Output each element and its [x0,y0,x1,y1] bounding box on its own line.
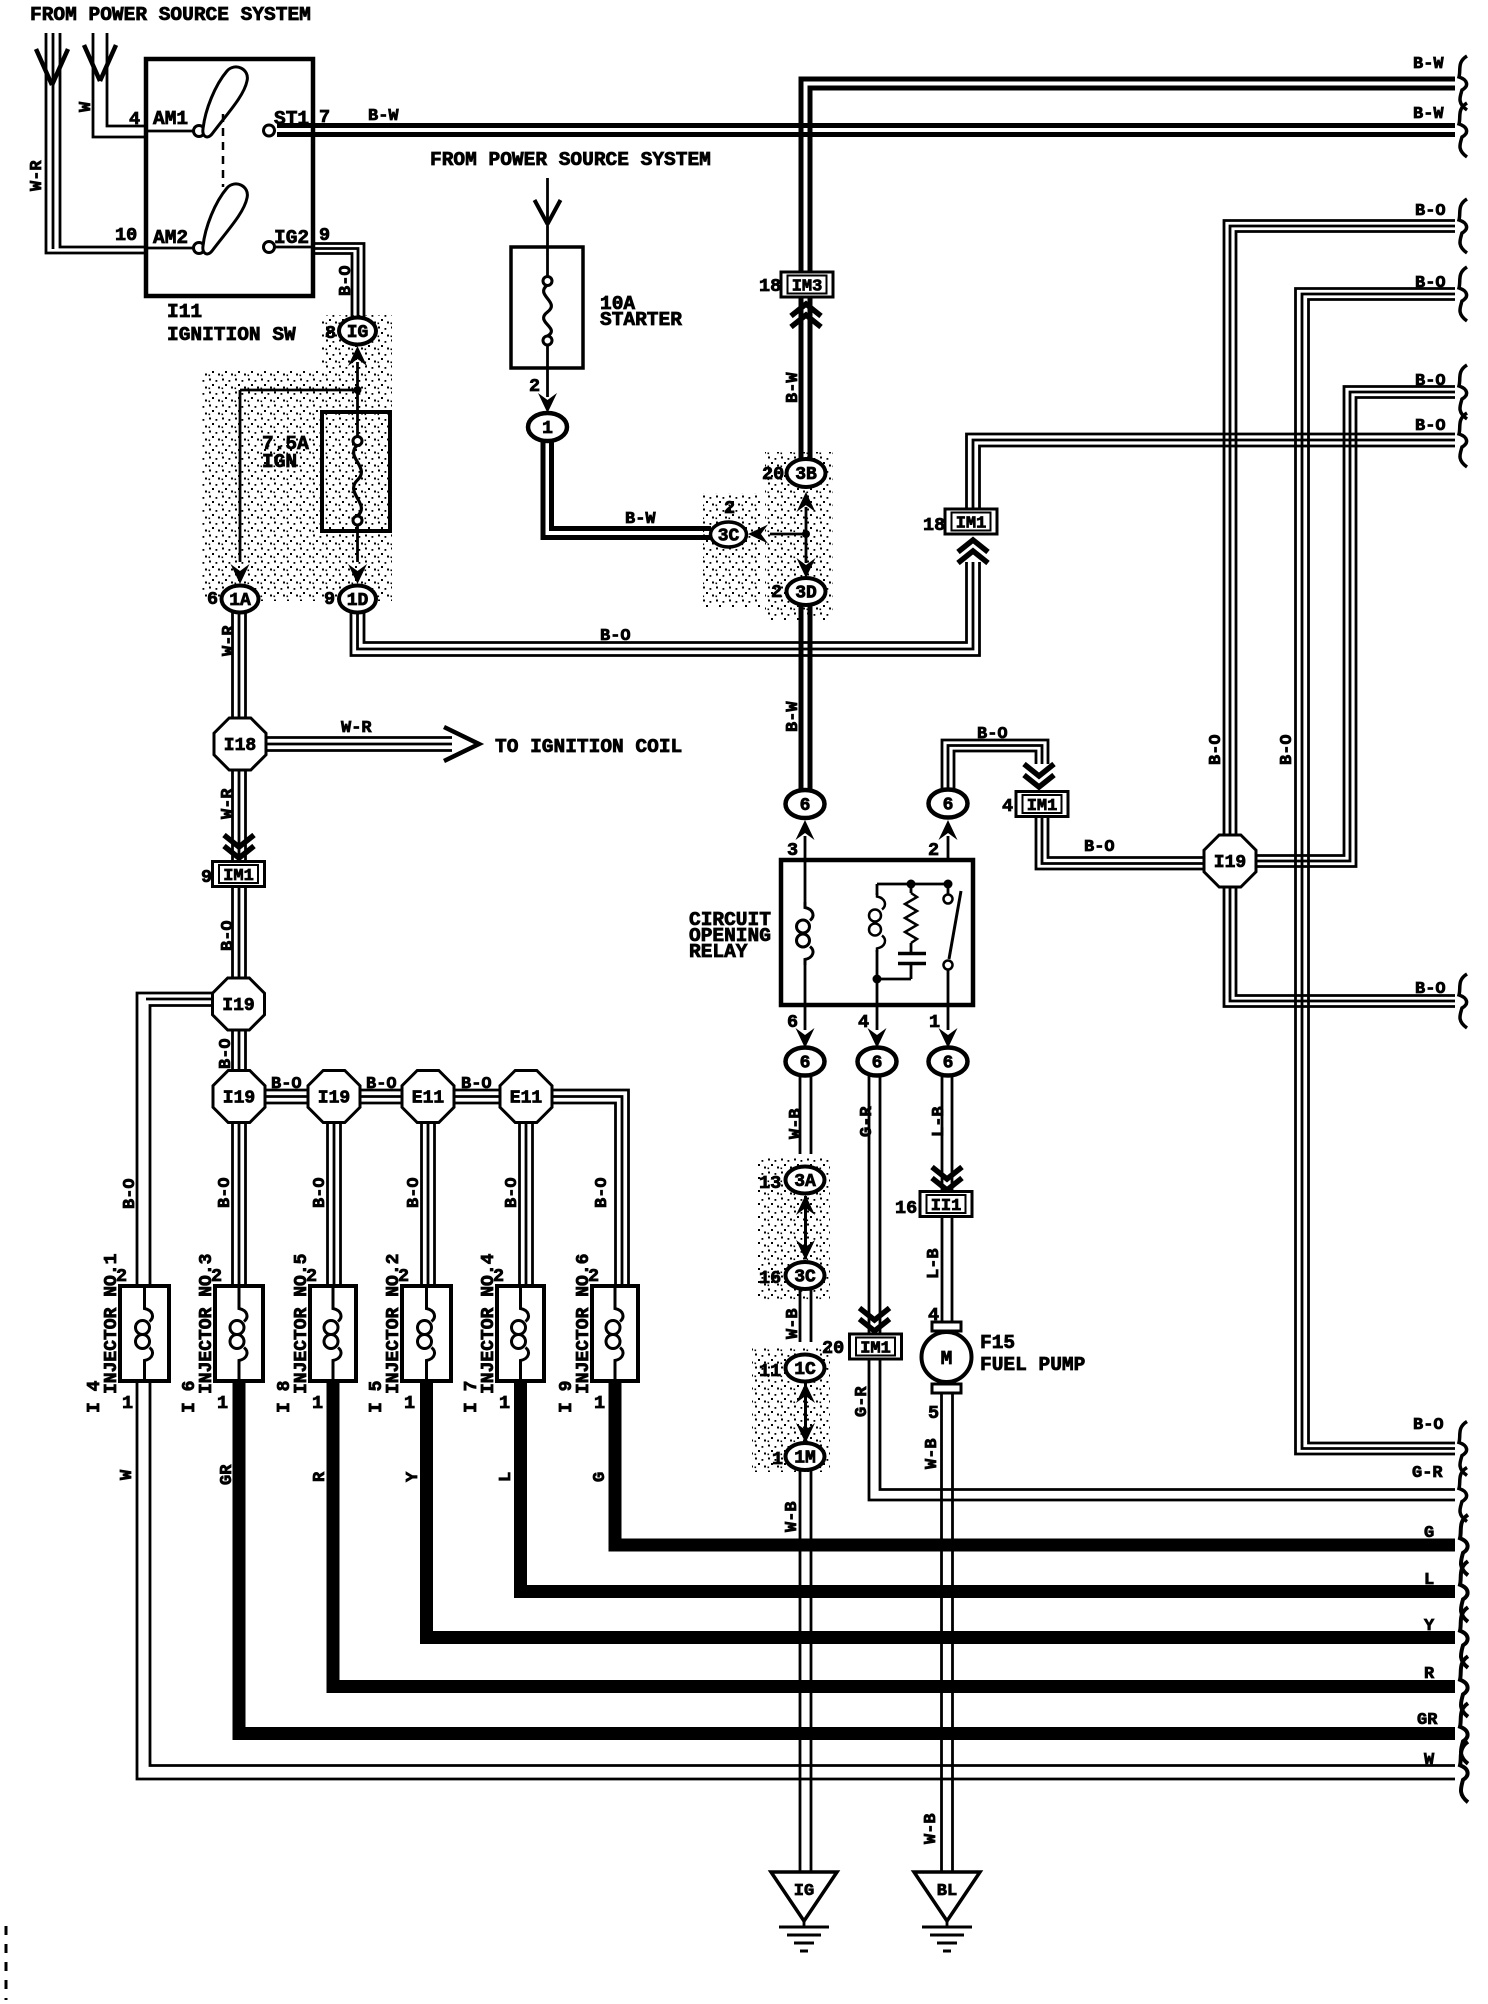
svg-text:R: R [311,1471,330,1482]
svg-text:W-B: W-B [922,1813,941,1844]
svg-text:L: L [1424,1571,1434,1590]
svg-text:B-O: B-O [1207,734,1226,765]
svg-text:B-O: B-O [216,1177,235,1208]
svg-text:INJECTOR NO.4: INJECTOR NO.4 [479,1253,499,1394]
svg-text:6: 6 [800,1054,811,1074]
svg-text:3A: 3A [794,1172,816,1192]
svg-text:B-W: B-W [1413,105,1444,124]
svg-text:3C: 3C [718,527,740,547]
svg-text:I 9: I 9 [557,1381,577,1413]
svg-text:9: 9 [319,225,330,246]
svg-text:AM1: AM1 [153,108,188,130]
svg-text:G: G [591,1472,610,1482]
svg-text:2: 2 [771,582,782,603]
svg-text:10: 10 [115,225,137,246]
svg-text:3C: 3C [794,1268,816,1288]
svg-text:B-O: B-O [593,1177,612,1208]
svg-text:B-O: B-O [1415,202,1446,221]
svg-text:1M: 1M [794,1449,816,1469]
svg-text:B-O: B-O [1084,838,1115,857]
svg-text:4: 4 [129,109,140,130]
svg-text:IGNITION SW: IGNITION SW [167,324,296,346]
svg-text:G-R: G-R [1412,1464,1443,1483]
svg-text:L-B: L-B [925,1248,944,1279]
svg-text:R: R [1424,1665,1435,1684]
svg-text:I19: I19 [318,1089,350,1109]
svg-text:IG: IG [794,1882,814,1901]
svg-text:11: 11 [759,1361,781,1382]
svg-text:IM3: IM3 [792,278,823,297]
svg-text:16: 16 [759,1268,781,1289]
svg-text:INJECTOR NO.2: INJECTOR NO.2 [384,1254,404,1394]
svg-text:1: 1 [404,1393,415,1414]
svg-text:B-O: B-O [1415,980,1446,999]
svg-text:B-W: B-W [784,372,803,403]
svg-text:B-O: B-O [121,1178,140,1209]
svg-text:3: 3 [787,840,798,861]
svg-text:B-O: B-O [219,920,238,951]
svg-text:2: 2 [928,840,939,861]
svg-text:FROM POWER SOURCE SYSTEM: FROM POWER SOURCE SYSTEM [30,4,311,26]
svg-text:W-R: W-R [220,625,239,656]
svg-text:W-B: W-B [787,1108,806,1139]
svg-text:I 6: I 6 [180,1381,200,1413]
svg-text:I18: I18 [224,736,256,756]
svg-text:B-W: B-W [1413,55,1444,74]
svg-text:1: 1 [594,1393,605,1414]
svg-text:ST1: ST1 [274,108,309,130]
svg-text:E11: E11 [412,1089,445,1109]
svg-text:FROM POWER SOURCE SYSTEM: FROM POWER SOURCE SYSTEM [430,149,711,171]
svg-text:B-W: B-W [784,701,803,732]
svg-text:F15: F15 [980,1332,1015,1354]
svg-text:6: 6 [787,1012,798,1033]
svg-text:5: 5 [928,1403,939,1424]
svg-text:I 4: I 4 [85,1380,105,1413]
svg-text:1: 1 [122,1393,133,1414]
svg-text:3B: 3B [795,465,817,485]
svg-text:B-O: B-O [217,1038,236,1069]
svg-text:W-R: W-R [28,160,47,191]
svg-text:6: 6 [872,1054,883,1074]
svg-text:IGN: IGN [262,451,297,473]
svg-text:TO IGNITION COIL: TO IGNITION COIL [495,736,682,758]
svg-text:I 8: I 8 [275,1381,295,1413]
svg-text:B-O: B-O [503,1177,522,1208]
svg-text:STARTER: STARTER [600,309,682,331]
svg-text:18: 18 [759,276,781,297]
svg-text:Y: Y [404,1471,423,1482]
svg-text:W-R: W-R [341,719,372,738]
svg-text:IM1: IM1 [223,867,254,886]
svg-text:AM2: AM2 [153,227,188,249]
svg-text:W-B: W-B [923,1438,942,1469]
svg-text:1C: 1C [794,1360,816,1380]
svg-text:IG: IG [347,323,369,343]
svg-text:1: 1 [772,1449,783,1470]
svg-text:FUEL PUMP: FUEL PUMP [980,1354,1085,1376]
svg-text:1D: 1D [347,591,369,611]
svg-text:2: 2 [724,498,735,519]
svg-text:W: W [77,101,96,112]
svg-text:RELAY: RELAY [689,941,748,963]
svg-text:18: 18 [923,515,945,536]
svg-text:W: W [1424,1751,1435,1770]
svg-text:B-O: B-O [366,1075,397,1094]
svg-text:1: 1 [312,1393,323,1414]
svg-text:1A: 1A [229,591,251,611]
svg-text:GR: GR [218,1464,237,1485]
svg-text:GR: GR [1417,1711,1438,1730]
svg-text:B-O: B-O [1413,1416,1444,1435]
svg-text:B-O: B-O [977,725,1008,744]
svg-text:B-O: B-O [1415,417,1446,436]
svg-text:IM1: IM1 [956,515,987,534]
svg-text:B-O: B-O [600,627,631,646]
svg-text:I 7: I 7 [462,1381,482,1413]
svg-text:B-O: B-O [311,1177,330,1208]
svg-text:B-O: B-O [461,1075,492,1094]
svg-text:9: 9 [324,589,335,610]
svg-text:B-O: B-O [405,1177,424,1208]
svg-text:7: 7 [319,107,330,128]
svg-text:G-R: G-R [853,1386,872,1417]
svg-text:W-R: W-R [219,788,238,819]
svg-text:G: G [1424,1524,1434,1543]
svg-text:IM1: IM1 [860,1340,891,1359]
svg-text:I19: I19 [1214,853,1246,873]
svg-text:W: W [118,1469,137,1480]
svg-text:B-W: B-W [625,510,656,529]
svg-text:INJECTOR NO.5: INJECTOR NO.5 [292,1254,312,1394]
svg-text:I19: I19 [222,996,254,1016]
svg-text:G-R: G-R [858,1106,877,1137]
svg-text:IG2: IG2 [274,227,309,249]
svg-text:INJECTOR NO.6: INJECTOR NO.6 [574,1254,594,1394]
svg-text:20: 20 [822,1338,844,1359]
svg-text:I 5: I 5 [367,1381,387,1413]
svg-text:INJECTOR NO.1: INJECTOR NO.1 [102,1253,122,1394]
svg-text:IM1: IM1 [1027,797,1058,816]
svg-text:INJECTOR NO.3: INJECTOR NO.3 [197,1254,217,1394]
svg-text:B-O: B-O [271,1075,302,1094]
svg-text:I19: I19 [223,1089,255,1109]
svg-text:1: 1 [499,1393,510,1414]
svg-text:W-B: W-B [784,1308,803,1339]
svg-text:13: 13 [759,1173,781,1194]
svg-text:I11: I11 [167,301,202,323]
svg-text:W-B: W-B [783,1501,802,1532]
svg-text:6: 6 [943,1054,954,1074]
svg-text:E11: E11 [510,1089,543,1109]
svg-text:B-O: B-O [1415,372,1446,391]
svg-text:L: L [497,1472,516,1482]
svg-text:8: 8 [325,323,336,344]
svg-text:II1: II1 [931,1197,962,1216]
svg-text:2: 2 [529,376,540,397]
svg-text:1: 1 [217,1393,228,1414]
svg-text:B-O: B-O [1278,734,1297,765]
svg-text:BL: BL [937,1882,957,1901]
svg-text:4: 4 [858,1012,869,1033]
svg-text:6: 6 [800,796,811,816]
svg-text:3D: 3D [795,584,817,604]
svg-text:B-O: B-O [337,265,356,296]
svg-text:1: 1 [929,1012,940,1033]
svg-text:4: 4 [928,1305,939,1326]
svg-text:M: M [941,1348,953,1370]
svg-text:16: 16 [895,1198,917,1219]
svg-text:1: 1 [542,419,553,439]
svg-text:9: 9 [201,867,212,888]
svg-text:B-W: B-W [368,107,399,126]
svg-text:6: 6 [943,796,954,816]
svg-text:B-O: B-O [1415,274,1446,293]
svg-text:6: 6 [207,589,218,610]
svg-text:L-B: L-B [930,1106,949,1137]
svg-text:20: 20 [762,464,784,485]
svg-text:4: 4 [1002,796,1013,817]
svg-text:Y: Y [1424,1617,1435,1636]
